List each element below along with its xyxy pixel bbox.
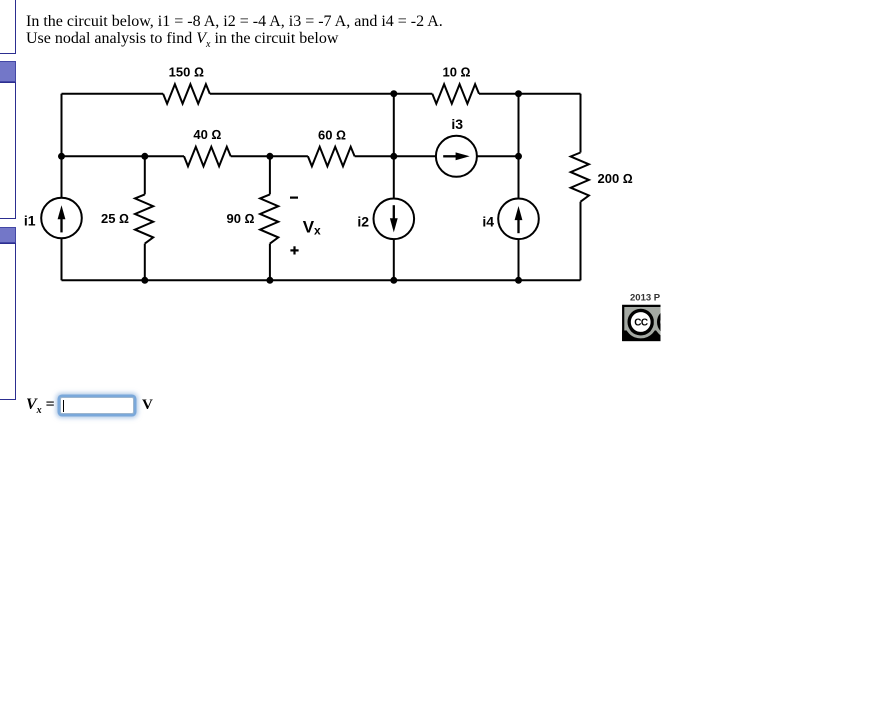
junction node top i4 [515,90,522,97]
sidebar panel 1 (cut off at top-left) [0,0,16,54]
answer label Vx = [26,396,55,416]
svg-text:2013 Pe: 2013 Pe [630,292,665,303]
sidebar panel 3 blue header [0,227,16,243]
wire row2 segment C [355,155,437,157]
wire row2 segment A [62,155,185,157]
label minus sign of Vx [290,197,298,199]
wire i4 branch top [518,94,520,198]
wire i4 branch lower [518,240,520,280]
wire row2 segment B [231,155,308,157]
svg-text:CC: CC [634,318,648,329]
i3 arrow [443,152,470,160]
text cursor [63,400,64,412]
resistor 150 ohm [163,84,210,104]
wire top-middle horizontal [210,93,432,95]
svg-text:200 Ω: 200 Ω [598,171,633,186]
resistor 200 ohm [571,153,589,202]
unit V [142,397,153,414]
junction node row2 25ohm [141,153,148,160]
svg-text:i4: i4 [482,213,494,229]
junction node bottom i4 [515,277,522,284]
BY person circle (clipped) [655,307,685,337]
wire left vertical lower [61,239,63,280]
wire i2 branch lower [393,240,395,280]
wire top-left horizontal [62,93,164,95]
wire bottom horizontal [62,279,581,281]
CC license badge [622,292,685,341]
wire 90ohm branch upper [269,156,271,194]
resistor 10 ohm [432,84,479,104]
sidebar panel 2 blue header [0,61,16,82]
answer input box with focus glow [60,397,134,414]
svg-text:25 Ω: 25 Ω [101,211,129,226]
i4 arrow [515,206,523,233]
badge border [623,306,678,340]
wire 25ohm branch lower [144,244,146,281]
wire right vertical lower [580,202,582,281]
resistor 40 ohm [184,147,231,167]
svg-text:90 Ω: 90 Ω [226,211,254,226]
svg-text:i3: i3 [451,116,463,132]
wire i2 branch top [393,94,395,198]
wire 25ohm branch upper [144,156,146,194]
junction node row2 90ohm [266,153,273,160]
junction node bottom i2 [390,277,397,284]
svg-text:Vx: Vx [303,217,321,237]
i2 arrow [390,205,398,232]
problem statement line 1 [26,13,443,47]
junction node bottom 25ohm [141,277,148,284]
wire left vertical upper [61,94,63,197]
junction node row2 i2 [390,153,397,160]
label plus sign of Vx [290,246,298,254]
resistor 90 ohm [260,194,278,243]
svg-text:i2: i2 [357,213,369,229]
current source i3 [436,136,477,177]
junction node bottom 90ohm [266,277,273,284]
i1 arrow [58,205,66,232]
svg-text:i1: i1 [24,213,36,229]
resistor 25 ohm [135,194,153,243]
svg-text:10 Ω: 10 Ω [442,65,470,80]
current source i1 [41,198,82,239]
wire row2 segment D [477,155,519,157]
svg-text:40 Ω: 40 Ω [193,127,221,142]
current source i4 [498,199,539,240]
wire 90ohm branch lower [269,244,271,281]
resistor 60 ohm [308,147,355,167]
wire top-right horizontal [479,93,581,95]
CC logo circle [626,307,656,337]
svg-text:150 Ω: 150 Ω [169,65,204,80]
junction node top i2 [390,90,397,97]
junction node row2 i4 [515,153,522,160]
junction node row2 left [58,153,65,160]
svg-text:60 Ω: 60 Ω [318,128,346,143]
current source i2 [374,199,415,240]
sidebar panel 3 body [0,243,16,401]
sidebar panel 2 body [0,82,16,219]
wire right vertical upper [580,94,582,153]
